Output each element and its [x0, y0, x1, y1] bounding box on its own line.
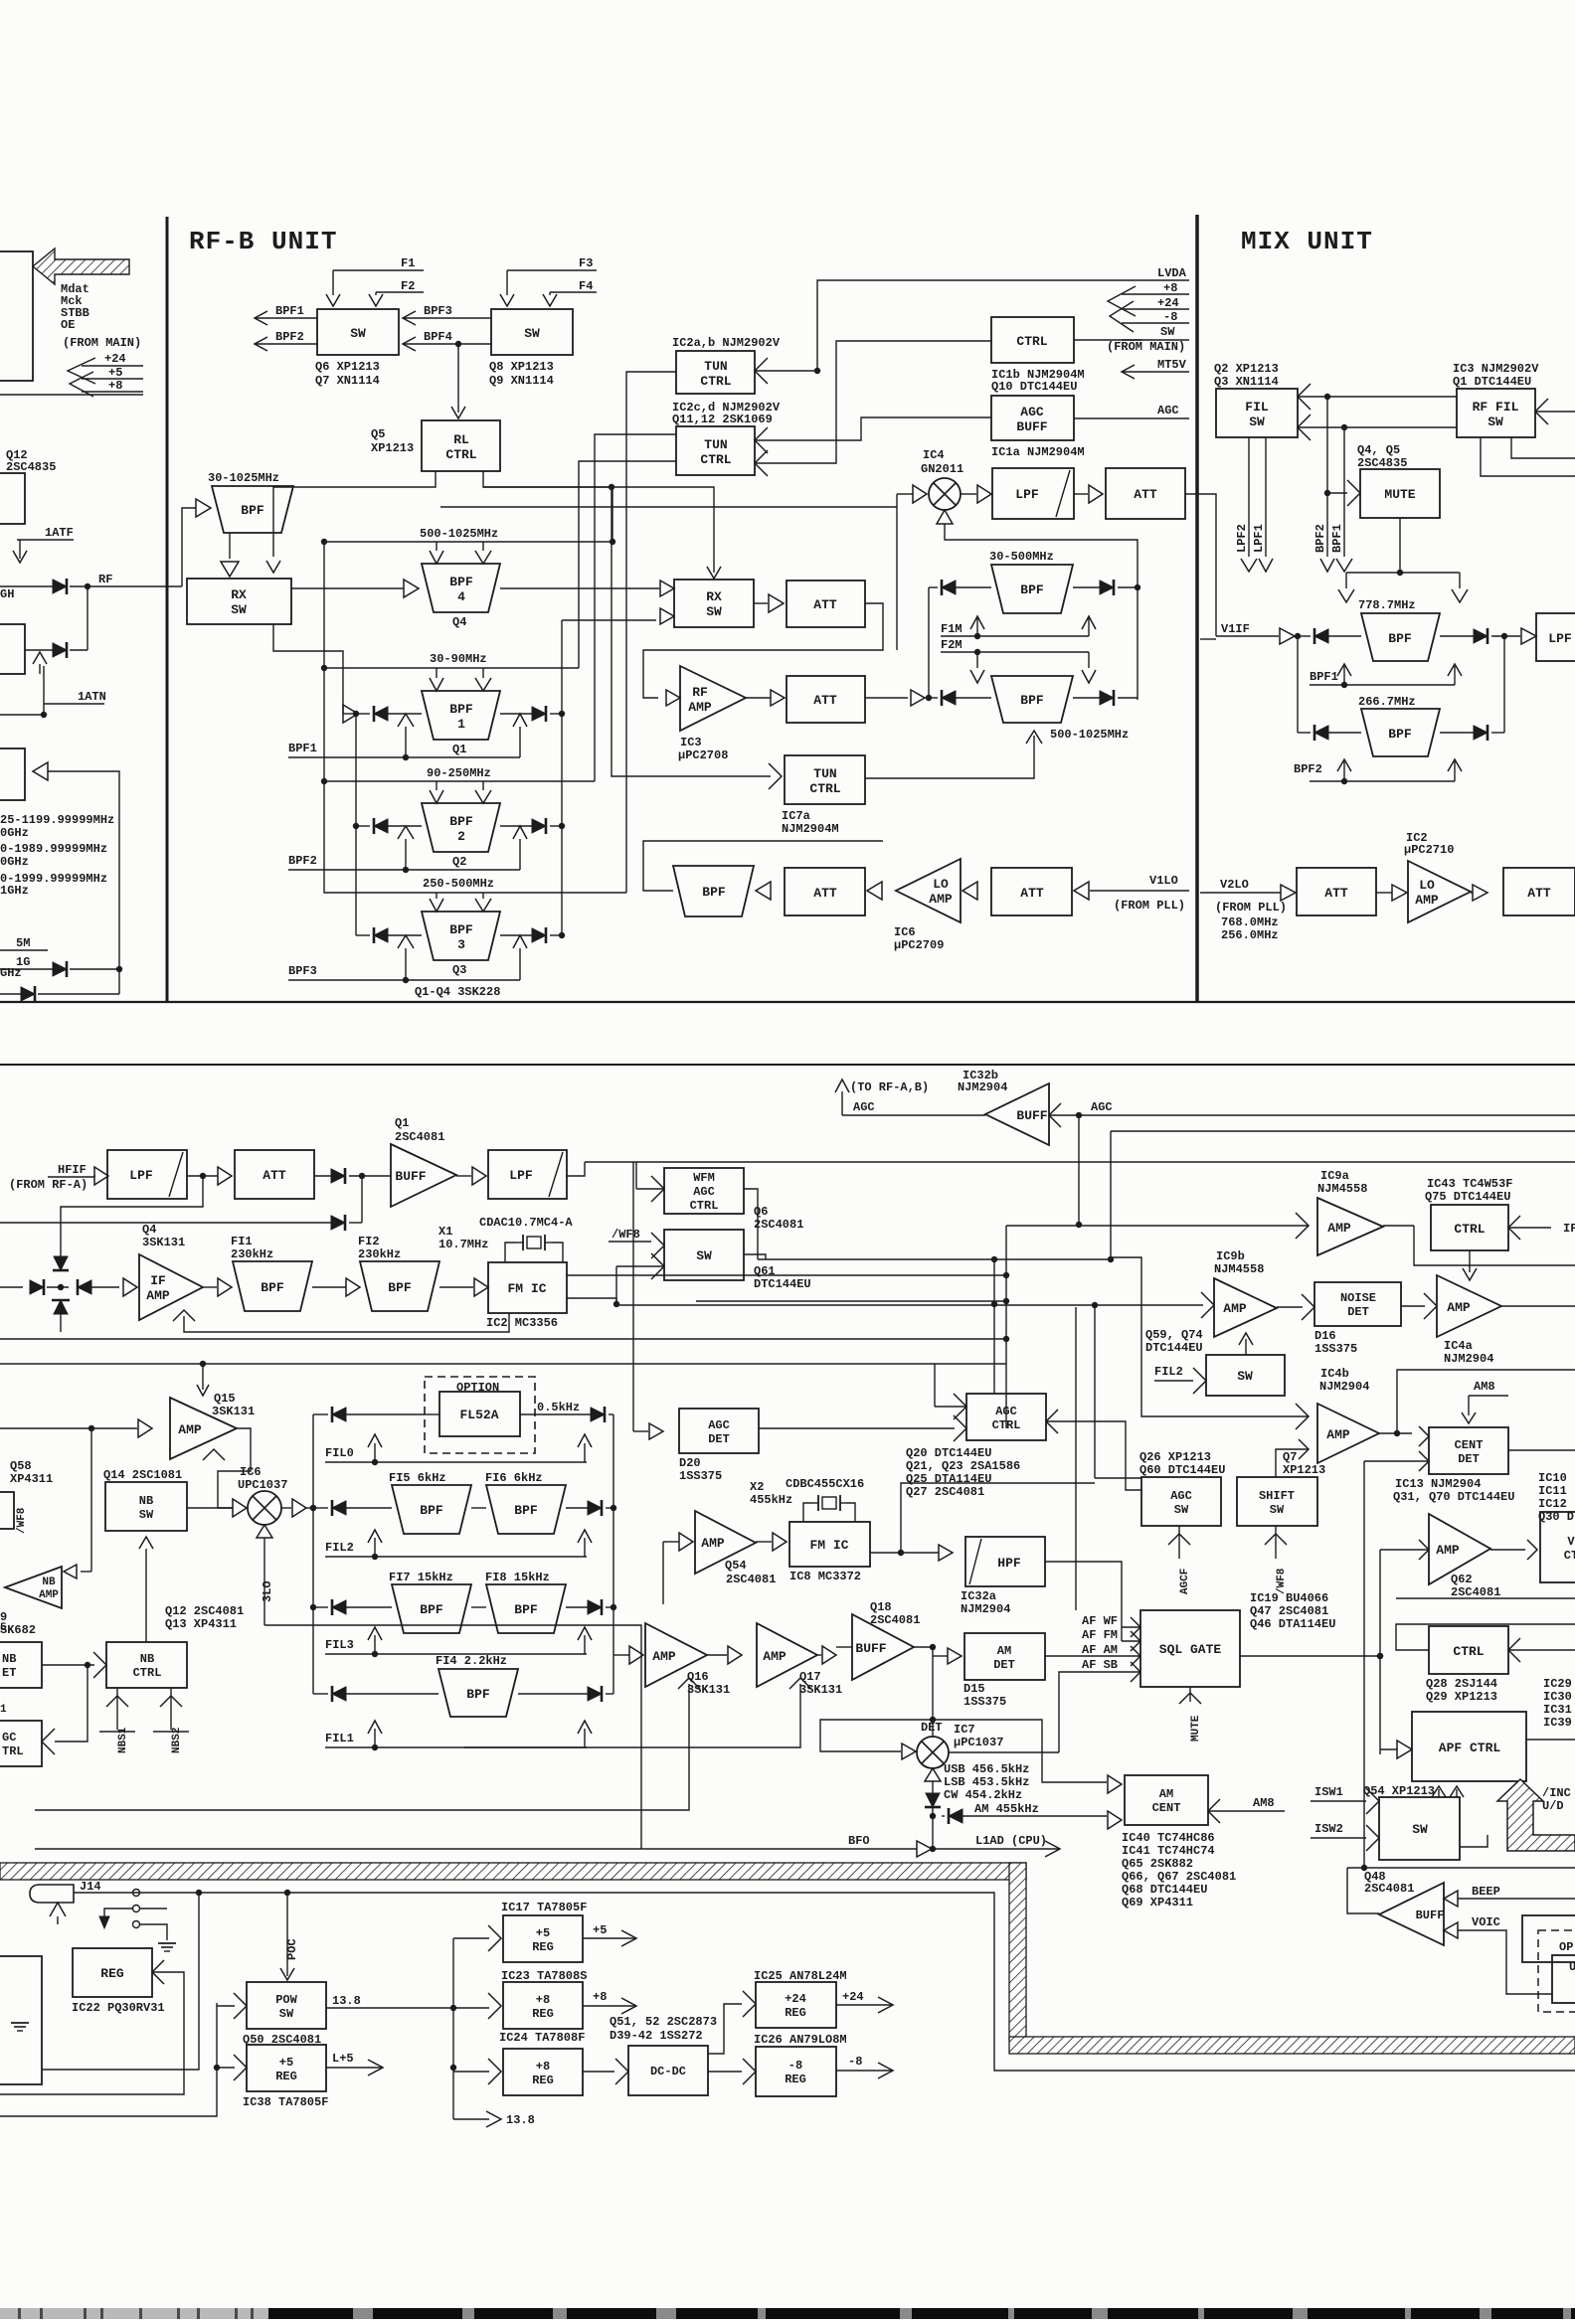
film strip black part [268, 2308, 1575, 2319]
svg-text:(TO RF-A,B): (TO RF-A,B) [850, 1080, 929, 1094]
buffer into BPF1 row [343, 705, 358, 723]
wire BUFF output bus [1347, 1867, 1575, 1869]
svg-text:BUFF: BUFF [1416, 1909, 1445, 1922]
svg-text:V: V [1567, 1535, 1575, 1549]
hatched shield band vertical [1009, 1863, 1026, 2040]
select arrows F1M [976, 618, 978, 636]
wire FL52A input [425, 1413, 439, 1415]
svg-text:ATT: ATT [813, 886, 837, 901]
svg-text:IC40 TC74HC86: IC40 TC74HC86 [1122, 1831, 1215, 1845]
wire into MUTE [1327, 492, 1347, 494]
box +5 REG IC38 [247, 2045, 326, 2091]
svg-text:ISW2: ISW2 [1314, 1822, 1343, 1836]
svg-text:/WF8: /WF8 [16, 1507, 28, 1534]
svg-text:AGC: AGC [995, 1405, 1017, 1418]
svg-text:768.0MHz: 768.0MHz [1221, 915, 1279, 929]
box AGC CTRL left (cut) [0, 1721, 42, 1766]
wire AGC CTRL top feed [993, 1259, 995, 1394]
svg-text:Q13 XP4311: Q13 XP4311 [165, 1617, 237, 1631]
connector pins J14 [133, 1890, 140, 1897]
svg-text:CTRL: CTRL [1454, 1222, 1485, 1237]
svg-text:Q4: Q4 [142, 1223, 156, 1237]
diode 778 BPF in [1314, 629, 1328, 643]
svg-text:AGC: AGC [693, 1185, 715, 1199]
svg-text:+24: +24 [1157, 296, 1179, 310]
wire AGC into BUFF [1049, 1103, 1061, 1127]
buffer into RF AMP [666, 690, 680, 706]
svg-text:RX: RX [231, 587, 247, 602]
svg-text:IC4b: IC4b [1320, 1367, 1349, 1381]
buffer ATT input [867, 882, 882, 900]
svg-text:LO: LO [1419, 878, 1435, 893]
wire TUN CTRL out to BPF bottom [865, 736, 1034, 778]
svg-text:Q2 XP1213: Q2 XP1213 [1214, 362, 1279, 376]
svg-text:CTRL: CTRL [700, 452, 731, 467]
buffer HPF in [939, 1545, 953, 1561]
wire right row bus [561, 620, 563, 935]
buffer into mixer IC4 [913, 485, 927, 503]
box FL52A [439, 1392, 520, 1436]
svg-text:IC24 TA7808F: IC24 TA7808F [499, 2031, 585, 2045]
op-amp LO AMP IC6 [896, 859, 961, 922]
diode BPF3 input [374, 928, 388, 942]
svg-text:FI7 15kHz: FI7 15kHz [389, 1571, 453, 1584]
svg-text:CTRL: CTRL [690, 1199, 719, 1213]
buffer to FI2 [312, 1286, 346, 1288]
wire into Q15 AMP [0, 1427, 91, 1429]
svg-text:AM: AM [997, 1644, 1011, 1658]
svg-text:Q6 XP1213: Q6 XP1213 [315, 360, 380, 374]
svg-text:0-1989.99999MHz: 0-1989.99999MHz [0, 842, 107, 856]
svg-text:BPF: BPF [420, 1602, 443, 1617]
box +8 REG IC23 [503, 1982, 583, 2029]
op-amp AMP Q16 [645, 1623, 707, 1687]
wire RX SW output to BPF4 row [291, 587, 404, 589]
wire input WFM AGC CTRL [651, 1176, 664, 1202]
svg-text:APF CTRL: APF CTRL [1439, 1741, 1501, 1755]
svg-text:IF: IF [150, 1273, 166, 1288]
wire select bus 30-90 [579, 461, 676, 668]
svg-text:SW: SW [1412, 1822, 1428, 1837]
svg-text:Q51, 52 2SC2873: Q51, 52 2SC2873 [610, 2015, 717, 2029]
filter BPF FI5 [392, 1485, 471, 1534]
svg-text:2SC4081: 2SC4081 [726, 1573, 776, 1586]
arrows into BPF4 [436, 542, 437, 551]
svg-text:F2M: F2M [941, 638, 962, 652]
svg-text:BFO: BFO [848, 1834, 870, 1848]
buffer RX SW2 output [754, 602, 768, 604]
svg-text:IC29: IC29 [1543, 1677, 1572, 1691]
svg-text:NJM2904: NJM2904 [1444, 1352, 1493, 1366]
svg-text:CTRL: CTRL [133, 1666, 162, 1680]
wire IC9a out to CTRL loop [1383, 1225, 1414, 1227]
box FM IC IC2 [488, 1262, 567, 1313]
svg-text:+24: +24 [842, 1990, 864, 2004]
box ATT LO 2 [991, 868, 1072, 915]
svg-text:BPF: BPF [702, 885, 726, 900]
diode FIL1 out [588, 1687, 602, 1701]
buffer BPF LO input [756, 882, 771, 900]
svg-text:µPC2710: µPC2710 [1404, 843, 1454, 857]
svg-text:IF: IF [1563, 1222, 1575, 1236]
svg-text:FM IC: FM IC [507, 1281, 546, 1296]
svg-text:10.7MHz: 10.7MHz [438, 1238, 488, 1251]
svg-text:BPF: BPF [388, 1280, 412, 1295]
op-amp AMP IC4b [1317, 1404, 1379, 1463]
svg-text:FI6 6kHz: FI6 6kHz [485, 1471, 543, 1485]
op-amp AMP IC9a [1317, 1198, 1383, 1255]
wire LPF up to bus [567, 1162, 585, 1176]
svg-text:Q12 2SC4081: Q12 2SC4081 [165, 1604, 244, 1618]
svg-text:CTRL: CTRL [992, 1418, 1021, 1432]
svg-text:AGC: AGC [708, 1418, 730, 1432]
wire FM IC8 out [870, 1552, 939, 1554]
svg-text:SQL GATE: SQL GATE [1159, 1642, 1222, 1657]
svg-text:Q75 DTC144EU: Q75 DTC144EU [1425, 1190, 1510, 1204]
svg-text:BPF2: BPF2 [288, 854, 317, 868]
svg-text:AF FM: AF FM [1082, 1628, 1118, 1642]
svg-text:FIL0: FIL0 [325, 1446, 354, 1460]
svg-text:+24: +24 [785, 1992, 806, 2006]
svg-text:+8: +8 [593, 1990, 607, 2004]
svg-text:3LO: 3LO [261, 1580, 274, 1602]
svg-text:1ATF: 1ATF [45, 526, 74, 540]
svg-text:REG: REG [532, 2074, 554, 2087]
svg-text:AMP: AMP [701, 1536, 725, 1551]
box LPF IC4 out [992, 468, 1074, 519]
svg-text:/WF8: /WF8 [612, 1228, 640, 1242]
svg-text:BPF1: BPF1 [275, 304, 304, 318]
wire NB SW out [187, 1507, 233, 1509]
diode FIL1 in [332, 1687, 346, 1701]
wire into IC24 [453, 2071, 489, 2073]
svg-text:LO: LO [933, 877, 949, 892]
wire into IC9b [1201, 1292, 1214, 1318]
buffer to LPF2 [456, 1175, 471, 1177]
svg-text:Q10 DTC144EU: Q10 DTC144EU [991, 380, 1077, 394]
wire SHIFT SW to IC4b [1276, 1449, 1309, 1477]
svg-text:/WF8: /WF8 [1276, 1568, 1288, 1594]
svg-text:230kHz: 230kHz [358, 1247, 401, 1261]
svg-text:+5: +5 [108, 366, 122, 380]
diode into 500-1025 BPF row [942, 691, 956, 705]
box MUTE Q4,Q5 [1360, 469, 1440, 518]
svg-text:F2: F2 [401, 279, 415, 293]
mixer IC4 [929, 478, 961, 510]
svg-text:BPF2: BPF2 [275, 330, 304, 344]
svg-text:BPF3: BPF3 [288, 964, 317, 978]
wire SW to IC9b [1245, 1339, 1247, 1355]
box SHIFT SW [1237, 1477, 1317, 1526]
svg-text:Q62: Q62 [1451, 1573, 1473, 1586]
svg-text:XP1213: XP1213 [371, 441, 414, 455]
wire SQL GATE output [1240, 1655, 1380, 1657]
svg-text:SW: SW [1249, 415, 1265, 429]
svg-text:CTRL: CTRL [809, 781, 840, 796]
box ATT after RX SW2 [787, 581, 865, 627]
svg-text:J14: J14 [80, 1880, 101, 1894]
hatched shield band bottom [1009, 2037, 1575, 2054]
box AGC DET D20 [679, 1409, 759, 1453]
box AGC SW [1141, 1477, 1221, 1526]
svg-text:BUFF: BUFF [1016, 419, 1047, 434]
select arrows F2M [976, 652, 978, 668]
svg-text:DET: DET [1458, 1452, 1480, 1466]
svg-text:IC38 TA7805F: IC38 TA7805F [243, 2095, 328, 2109]
svg-text:Q59, Q74: Q59, Q74 [1145, 1328, 1203, 1342]
wire select bus 500-1025 [483, 486, 612, 488]
svg-text:BPF: BPF [449, 702, 473, 717]
wire AGC into IF AMP [173, 1310, 195, 1321]
box ATT LO 1 [785, 868, 865, 915]
mixer BFO input arrow [925, 1768, 941, 1781]
svg-text:SW: SW [279, 2007, 294, 2021]
box lower driver (cut at left) [0, 624, 25, 674]
wire to AGC CTRL left [55, 1665, 87, 1742]
wire filter bank left bus [312, 1414, 314, 1694]
diode BPF1 output [532, 707, 546, 721]
box ATT mix out [1106, 468, 1185, 519]
wire bus line y1138 [1111, 1130, 1575, 1132]
wire into POW SW [217, 2005, 235, 2007]
svg-text:LPF: LPF [129, 1168, 153, 1183]
box HPF IC32a [965, 1537, 1045, 1586]
svg-text:+8: +8 [536, 2060, 550, 2074]
wire RL CTRL right output [483, 471, 714, 573]
arrows into BPF2 [436, 781, 437, 790]
filter BPF 266.7MHz [1361, 709, 1440, 756]
net 3LO into mixer [257, 1525, 272, 1538]
op-amp NB AMP [5, 1567, 62, 1608]
svg-text:LPF1: LPF1 [1252, 524, 1266, 553]
buffer upper input RX SW2 [660, 581, 674, 596]
node IC4b out [1379, 1432, 1412, 1434]
svg-text:REG: REG [100, 1966, 124, 1981]
svg-text:FM IC: FM IC [809, 1538, 848, 1553]
op-amp AMP IC4a [1437, 1275, 1501, 1337]
box +24 REG IC25 [756, 1982, 836, 2028]
svg-text:Q4: Q4 [452, 615, 466, 629]
svg-text:XP1213: XP1213 [1283, 1463, 1325, 1477]
box UT (cut) [1552, 1955, 1575, 2003]
svg-text:OP: OP [1559, 1940, 1573, 1954]
svg-text:IC30: IC30 [1543, 1690, 1572, 1704]
net BEEP input [1444, 1891, 1458, 1907]
net POC [286, 1893, 288, 1976]
svg-text:Q1: Q1 [395, 1116, 409, 1130]
svg-text:SW: SW [1237, 1369, 1253, 1384]
wire FL52A to diode [520, 1413, 591, 1415]
svg-text:FI8 15kHz: FI8 15kHz [485, 1571, 550, 1584]
svg-text:F4: F4 [579, 279, 593, 293]
svg-text:Q58: Q58 [10, 1459, 32, 1473]
svg-text:IC9a: IC9a [1320, 1169, 1349, 1183]
wire bus vertical x1012 [1005, 1226, 1007, 1428]
wire bus 1608 [1396, 1597, 1575, 1599]
diode BPF2 input [374, 819, 388, 833]
buffer into APF CTRL [1397, 1741, 1412, 1758]
svg-text:BPF: BPF [1020, 582, 1044, 597]
svg-text:1GHz: 1GHz [0, 884, 29, 898]
wire RF FIL SW to FIL SW upper [1298, 384, 1311, 410]
svg-text:µPC2708: µPC2708 [678, 748, 728, 762]
box TUN CTRL IC2c,d [676, 426, 755, 475]
ground aux [11, 2022, 29, 2024]
filter BPF 1 [422, 691, 500, 740]
svg-text:AGC: AGC [853, 1100, 875, 1114]
svg-text:SW: SW [1270, 1503, 1285, 1517]
svg-text:SW: SW [524, 326, 540, 341]
box RF FIL SW IC3 [1457, 389, 1535, 437]
svg-text:AGC: AGC [1020, 405, 1044, 419]
wire NB DET to NB CTRL [42, 1664, 94, 1666]
svg-text:AF AM: AF AM [1082, 1643, 1118, 1657]
wire up to RF node [87, 586, 88, 650]
buffer AGC DET in [633, 1430, 648, 1432]
box option upper (cut) [1522, 1915, 1575, 1962]
wire bus line y1169 [585, 1161, 1575, 1163]
wire HPF out [1045, 1562, 1122, 1641]
wire IC9b to NOISE DET [1277, 1306, 1303, 1308]
wire IC4b out up to bus [1397, 1370, 1575, 1433]
svg-text:AGCF: AGCF [1179, 1569, 1191, 1594]
op-amp BUFF Q1 [391, 1144, 456, 1207]
svg-text:REG: REG [785, 2073, 806, 2086]
svg-text:Q28 2SJ144: Q28 2SJ144 [1426, 1677, 1497, 1691]
svg-text:1SS375: 1SS375 [1314, 1342, 1357, 1356]
wire Q16/Q17 agc taps [678, 1678, 700, 1689]
svg-text:BPF: BPF [514, 1503, 538, 1518]
svg-text:BPF: BPF [449, 922, 473, 937]
wire from buffer to feedback bus [48, 771, 119, 994]
svg-text:AMP: AMP [688, 700, 712, 715]
diode BPF2 output [532, 819, 546, 833]
svg-text:3SK131: 3SK131 [212, 1405, 255, 1418]
svg-text:NB: NB [2, 1652, 16, 1666]
svg-text:SW: SW [139, 1508, 154, 1522]
svg-text:Q14 2SC1081: Q14 2SC1081 [103, 1468, 182, 1482]
svg-text:µPC2709: µPC2709 [894, 938, 944, 952]
svg-text:BPF: BPF [241, 503, 264, 518]
select arrows under BPF3 [398, 935, 414, 948]
svg-text:Q46 DTA114EU: Q46 DTA114EU [1250, 1617, 1335, 1631]
svg-text:ATT: ATT [262, 1168, 286, 1183]
svg-text:GH: GH [0, 587, 14, 601]
svg-text:Q31, Q70 DTC144EU: Q31, Q70 DTC144EU [1393, 1490, 1514, 1504]
wire mixer out [949, 1751, 1059, 1753]
svg-text:BPF: BPF [449, 814, 473, 829]
svg-text:1SS375: 1SS375 [963, 1695, 1006, 1709]
wire bus line y1265 [758, 1258, 1111, 1260]
box ATT IF [235, 1150, 314, 1199]
svg-text:Q54: Q54 [725, 1559, 747, 1573]
net 13.8 down arrow [453, 2118, 489, 2120]
svg-text:13.8: 13.8 [506, 2113, 535, 2127]
svg-text:2SC4081: 2SC4081 [1364, 1882, 1414, 1896]
wire REG input [152, 1960, 164, 1984]
box AM DET D15 [964, 1633, 1045, 1680]
svg-text:OE: OE [61, 318, 75, 332]
diode FIL0 in [332, 1408, 346, 1421]
svg-text:ATT: ATT [1324, 886, 1348, 901]
svg-text:AMP: AMP [1415, 893, 1439, 908]
wire 13.8 to +5 REG [453, 2007, 489, 2009]
svg-text:FIL3: FIL3 [325, 1638, 354, 1652]
svg-text:AGC: AGC [1170, 1489, 1192, 1503]
svg-text:ISW1: ISW1 [1314, 1785, 1343, 1799]
svg-text:230kHz: 230kHz [231, 1247, 273, 1261]
svg-text:Q2: Q2 [452, 855, 466, 869]
box POW SW Q50 [247, 1982, 326, 2029]
box NB DET (cut) [0, 1642, 42, 1688]
svg-text:NJM4558: NJM4558 [1214, 1262, 1264, 1276]
wire top section bottom border [0, 1001, 1575, 1003]
svg-text:LPF: LPF [1548, 631, 1572, 646]
wire vertical x1082 [1075, 1307, 1077, 1610]
svg-text:RF FIL: RF FIL [1473, 400, 1519, 415]
buffer mixer IC4 output [961, 493, 976, 495]
wire BPF4 node to RL CTRL [455, 341, 461, 347]
svg-text:IC32a: IC32a [961, 1589, 996, 1603]
box interface (cut left) [0, 1956, 42, 2084]
svg-text:IC25 AN78L24M: IC25 AN78L24M [754, 1969, 847, 1983]
svg-text:Q18: Q18 [870, 1600, 892, 1614]
diode lower path [331, 1216, 345, 1230]
hatched arrow /INC U/D [1497, 1779, 1575, 1851]
wire bus line y1309 [696, 1300, 1006, 1302]
node MUTE feed [1324, 490, 1330, 496]
svg-text:500-1025MHz: 500-1025MHz [1050, 728, 1129, 742]
svg-text:SW: SW [696, 1248, 712, 1263]
buffer NB AMP input [64, 1565, 77, 1578]
svg-text:IC26 AN79LO8M: IC26 AN79LO8M [754, 2033, 847, 2047]
wire bus line y1347 [0, 1338, 1006, 1340]
box LPF HFIF [107, 1150, 187, 1199]
box PLL lower (cut at left) [0, 748, 25, 800]
input arrow RF FIL SW right [1535, 399, 1548, 424]
svg-text:5: 5 [0, 1622, 7, 1634]
filter BPF 30-500 [991, 565, 1073, 613]
wire Q15 ctrl arrow [203, 1449, 225, 1460]
box TUN CTRL IC7a [785, 755, 865, 804]
buffer into mixer IC6 [233, 1499, 247, 1517]
svg-text:AMP: AMP [1327, 1221, 1351, 1236]
buffer lower input RX SW2 [660, 608, 674, 624]
box VOL CTRL (cut) [1540, 1512, 1575, 1582]
zigzag arrows FROM MAIN rails [1108, 286, 1136, 316]
svg-text:13.8: 13.8 [332, 1994, 361, 2008]
wire DET loop [820, 1720, 1107, 1782]
svg-text:0GHz: 0GHz [0, 855, 29, 869]
svg-text:IC7: IC7 [954, 1723, 975, 1737]
svg-text:FIL: FIL [1245, 400, 1269, 415]
svg-text:NB: NB [140, 1652, 154, 1666]
svg-text:CTRL: CTRL [1016, 334, 1047, 349]
buffer AM DET in [948, 1648, 962, 1664]
box SW /WF8 (cut) [0, 1492, 14, 1529]
wire RX SW lower output to BPF1 row [273, 624, 343, 714]
wire Q15 to mixer IC6 [218, 1428, 251, 1508]
buffer IF out [1521, 628, 1536, 644]
wire MUTE output branch [1399, 518, 1401, 573]
svg-text:IC4: IC4 [923, 448, 945, 462]
svg-text:+8: +8 [1163, 281, 1177, 295]
svg-text:250-500MHz: 250-500MHz [423, 877, 494, 891]
svg-text:TUN: TUN [704, 359, 727, 374]
svg-text:AF WF: AF WF [1082, 1614, 1118, 1628]
diode 30-500 out [1100, 581, 1114, 594]
diode TX path [53, 643, 67, 657]
